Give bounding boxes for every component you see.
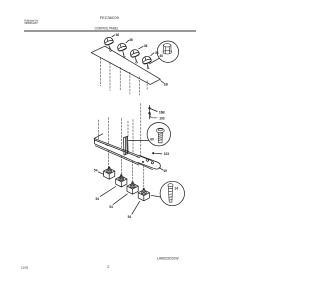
dashed shaft lines below panel <box>100 58 147 95</box>
leader circle40 to knob4 <box>150 58 160 64</box>
leader dot to label 103 lower <box>153 153 154 154</box>
svg-text:11/02: 11/02 <box>21 266 29 270</box>
svg-text:1B: 1B <box>164 83 169 87</box>
mounting bar 19 (long slanted slab) <box>94 134 151 161</box>
switch 54 #1 <box>104 167 115 179</box>
dashed alignment lines above bar <box>98 104 141 157</box>
leader plate to label 19 <box>159 168 163 171</box>
detail circle 60 <box>147 123 170 146</box>
svg-text:5995361157: 5995361157 <box>24 21 38 25</box>
switch 54 #4 <box>138 188 149 200</box>
svg-text:FEC36C09: FEC36C09 <box>100 16 119 20</box>
holes in right plate <box>147 159 149 161</box>
dashed leader to label 103 upper <box>150 113 157 117</box>
svg-text:14: 14 <box>174 186 178 190</box>
svg-text:54: 54 <box>94 169 98 173</box>
svg-text:54: 54 <box>128 215 132 219</box>
screw 60 inside circle <box>156 128 164 143</box>
leader to label 16B <box>150 109 157 112</box>
detail circle 14 <box>160 181 184 205</box>
svg-text:2: 2 <box>107 265 109 269</box>
svg-text:36: 36 <box>116 33 120 37</box>
leader circle14 to switch4 <box>151 195 161 197</box>
switch 54 #3 <box>127 182 138 194</box>
part number labels <box>94 33 178 219</box>
leader label54 C to switch3 <box>113 194 127 205</box>
detail circle 40 <box>157 41 178 62</box>
knob 36 #1 <box>103 36 114 46</box>
svg-text:CONTROL PANEL: CONTROL PANEL <box>95 26 119 30</box>
switch shafts below bar <box>109 150 144 188</box>
svg-text:36: 36 <box>155 51 159 55</box>
svg-text:LA6923C02W: LA6923C02W <box>157 257 179 261</box>
arrow knob2 to panel <box>122 52 125 56</box>
leader label54 B to switch2 <box>100 187 116 197</box>
svg-text:103: 103 <box>164 152 170 156</box>
svg-text:16B: 16B <box>159 110 166 114</box>
svg-text:19: 19 <box>163 169 167 173</box>
slot marks on bar top face <box>106 145 108 146</box>
svg-text:60: 60 <box>150 137 154 141</box>
svg-text:103: 103 <box>159 116 165 120</box>
arrow knob1 to panel <box>109 46 110 50</box>
knob 36 #4 <box>141 55 152 65</box>
leader knob2 to label 36 <box>126 40 129 43</box>
screw 14 inside circle <box>168 184 173 202</box>
arrow knob3 to panel <box>134 58 137 62</box>
svg-text:54: 54 <box>109 205 113 209</box>
screw item above right (two dots leader) <box>149 105 151 119</box>
svg-text:36: 36 <box>144 44 148 48</box>
header rule <box>24 30 196 32</box>
header publication text <box>24 19 38 26</box>
leader panel to label 1B <box>161 81 164 83</box>
svg-text:40: 40 <box>160 54 164 58</box>
leader bracket to circle 60 <box>128 139 148 141</box>
spacer 40 inside circle <box>163 44 171 54</box>
svg-text:54: 54 <box>96 197 100 201</box>
leader knob1 to label 36 <box>112 35 115 37</box>
knob hole marks on panel <box>109 50 149 69</box>
bracket on bar (pointed by screw 60) <box>124 136 129 155</box>
switch 54 #2 <box>116 175 127 187</box>
leader knob4 to label 36 <box>151 53 154 56</box>
bar right end plate <box>138 155 161 169</box>
svg-text:36: 36 <box>129 38 133 42</box>
arrow knob4 to panel <box>146 65 149 68</box>
knob 36 #3 <box>129 48 140 58</box>
leader label54 A to switch1 <box>98 172 103 174</box>
leader label54 D to switch4 <box>132 201 140 214</box>
knob 36 #2 <box>116 42 127 52</box>
panel 1B (top exploded view, parallelogram) <box>91 46 160 84</box>
leader knob3 to label 36 <box>139 46 144 49</box>
